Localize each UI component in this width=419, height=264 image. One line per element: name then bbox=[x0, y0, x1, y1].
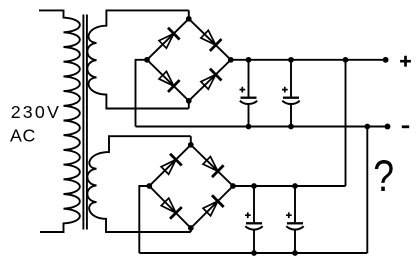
capacitor C1 wires bbox=[248, 60, 250, 127]
node C1 top junction bbox=[246, 57, 252, 63]
svg-text:AC: AC bbox=[10, 126, 36, 146]
wire S1 top lead drop to bridge1 top node bbox=[188, 10, 190, 18]
node vertical A tap on plus rail bbox=[343, 57, 349, 63]
diode D6 bridge2 top-right bbox=[201, 154, 224, 177]
wire S1 bottom lead rise to bridge1 bottom node bbox=[188, 101, 190, 109]
wire S2 top lead drop to bridge2 top node bbox=[190, 136, 192, 145]
transformer secondary winding S1 bbox=[87, 10, 188, 108]
node bridge1 right (plus) bbox=[228, 57, 234, 63]
wire bridge1 minus node to middle rail bbox=[136, 60, 148, 127]
node bridge2 left (minus) bbox=[146, 183, 152, 189]
node C4 top junction bbox=[292, 183, 298, 189]
node C3 top junction bbox=[251, 183, 257, 189]
transformer T1 primary winding with 230V AC leads bbox=[39, 10, 80, 232]
node bridge2 right (plus) bbox=[230, 183, 236, 189]
diode D2 bridge1 top-right bbox=[199, 28, 222, 51]
diode D8 bridge2 bottom-right bbox=[201, 195, 224, 218]
wire top plus rail bbox=[231, 59, 386, 61]
wire vertical A joining bridge2 plus rail to top rail bbox=[345, 60, 347, 186]
node C4 bottom junction bbox=[292, 250, 298, 256]
label minus terminal bbox=[402, 125, 409, 128]
wire middle minus rail bbox=[136, 126, 388, 128]
diode D3 bridge1 bottom-left bbox=[157, 69, 180, 92]
capacitor C3 wires bbox=[253, 186, 255, 253]
wire bridge2 minus node down to bottom rail bbox=[139, 186, 149, 253]
node plus output terminal bbox=[383, 57, 389, 63]
diode D4 bridge1 bottom-right bbox=[199, 69, 222, 92]
wire S2 bottom lead rise to bridge2 bottom node bbox=[190, 228, 192, 232]
node C2 bottom junction bbox=[288, 124, 294, 130]
label plus terminal bbox=[400, 56, 411, 67]
node bridge1 bottom (AC) bbox=[186, 98, 192, 104]
node minus output terminal bbox=[385, 124, 391, 130]
node bridge1 top (AC) bbox=[186, 16, 192, 22]
bridge 2 diamond bbox=[149, 145, 233, 228]
capacitor C4 wires bbox=[294, 186, 296, 253]
wire bridge2 plus rail bbox=[233, 185, 346, 187]
capacitor C3 plates bbox=[245, 212, 263, 229]
bridge 1 diamond bbox=[147, 19, 231, 101]
wire section-2 bottom rail bbox=[139, 252, 367, 254]
capacitor C2 wires bbox=[290, 60, 292, 127]
node bridge2 bottom (AC) bbox=[188, 225, 194, 231]
node C3 bottom junction bbox=[251, 250, 257, 256]
wire vertical B joining bottom rail to middle rail bbox=[366, 127, 368, 254]
transformer secondary winding S2 bbox=[87, 136, 190, 232]
node vertical B tap on minus rail bbox=[364, 124, 370, 130]
transformer core bbox=[83, 15, 87, 230]
capacitor C1 plates bbox=[240, 87, 258, 104]
diode D7 bridge2 bottom-left bbox=[159, 196, 182, 219]
capacitor C2 plates bbox=[282, 87, 300, 104]
diode D5 bridge2 top-left bbox=[159, 154, 182, 177]
diode D1 bridge1 top-left bbox=[157, 28, 180, 51]
node bridge2 top (AC) bbox=[188, 142, 194, 148]
node C1 bottom junction bbox=[246, 124, 252, 130]
svg-text:230V: 230V bbox=[11, 102, 61, 122]
node C2 top junction bbox=[288, 57, 294, 63]
svg-text:?: ? bbox=[373, 151, 394, 201]
capacitor C4 plates bbox=[286, 212, 304, 229]
node bridge1 left (minus) bbox=[144, 57, 150, 63]
